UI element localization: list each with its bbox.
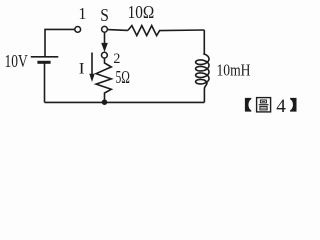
svg-text:10V: 10V — [5, 51, 28, 71]
svg-text:1: 1 — [78, 4, 86, 23]
svg-text:10mH: 10mH — [217, 60, 251, 79]
switch S throw arrow shaft — [104, 33, 106, 44]
resistor R1 10-ohm zigzag — [128, 26, 204, 36]
svg-text:5Ω: 5Ω — [116, 67, 130, 87]
wire battery top lead and top-left segment to contact 1 — [45, 29, 75, 56]
switch pole S circle — [102, 26, 108, 32]
figure caption bracket right — [290, 98, 296, 112]
battery B1 short plate (-) — [37, 61, 50, 64]
current I arrowhead — [89, 74, 94, 82]
svg-text:S: S — [100, 5, 109, 25]
battery B1 long plate (+) — [31, 56, 59, 58]
switch contact 2 circle — [102, 52, 108, 58]
junction node dot — [102, 99, 108, 105]
figure caption character tu (picture) outer box — [257, 98, 271, 112]
wire battery bottom lead — [44, 63, 46, 102]
svg-text:2: 2 — [113, 51, 120, 67]
figure caption bracket left — [245, 98, 251, 112]
svg-text:4: 4 — [276, 96, 286, 117]
wire bottom return — [45, 101, 205, 103]
switch throw arrowhead — [101, 43, 108, 52]
switch contact 1 circle — [75, 27, 81, 33]
svg-text:I: I — [79, 60, 85, 77]
svg-text:10Ω: 10Ω — [128, 2, 155, 22]
inductor L1 10mH coil with right-side wires — [196, 30, 209, 102]
resistor R2 5-ohm vertical zigzag — [96, 58, 111, 99]
current I arrow shaft — [91, 53, 93, 75]
wire from switch pole S to 10-ohm resistor — [108, 29, 128, 32]
